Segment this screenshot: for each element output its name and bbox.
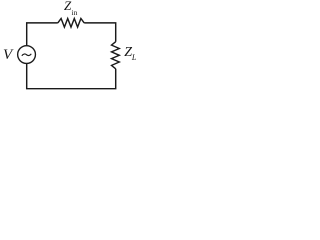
label ZL: Z <box>124 46 132 60</box>
label Zin: Z <box>64 0 71 12</box>
source V circle <box>18 46 36 64</box>
wire: top-left segment from source to Zin <box>27 23 58 45</box>
wire: top-right segment from Zin to ZL <box>84 23 116 42</box>
resistor ZL <box>112 42 120 69</box>
label V <box>3 48 12 63</box>
label ZL: subscript L <box>132 54 136 62</box>
wire: bottom return loop <box>27 64 116 89</box>
source V sine symbol <box>22 54 32 56</box>
resistor Zin <box>58 19 84 28</box>
label Zin: subscript in <box>72 9 78 17</box>
